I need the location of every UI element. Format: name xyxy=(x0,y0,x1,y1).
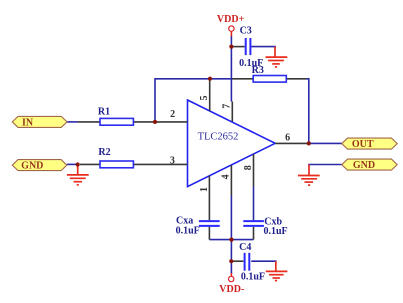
pin 5 lead (top) xyxy=(209,79,211,111)
svg-text:R2: R2 xyxy=(98,147,110,158)
svg-text:GND: GND xyxy=(21,161,43,172)
wire C4 right lead to ground xyxy=(251,261,276,262)
pin 3 lead xyxy=(133,163,187,165)
port OUT xyxy=(342,138,397,149)
svg-text:8: 8 xyxy=(243,165,254,170)
junction node C4/pin4 xyxy=(229,259,233,263)
pin 1 lead (bottom) xyxy=(208,176,210,221)
resistor R2 xyxy=(80,163,100,165)
wire IN port stub xyxy=(67,121,78,123)
junction node pin5/feedback xyxy=(208,77,212,81)
capacitor Cxb xyxy=(253,227,255,240)
svg-text:OUT: OUT xyxy=(352,139,374,150)
wire feedback top: from node at R1 up and across xyxy=(67,36,342,274)
svg-text:3: 3 xyxy=(170,155,175,166)
junction node Cxa/Cxb/pin4 xyxy=(229,238,233,242)
resistor R1 xyxy=(78,121,100,123)
svg-text:2: 2 xyxy=(170,109,175,120)
port GND left xyxy=(12,160,67,171)
ground (left GND) xyxy=(67,165,89,185)
port GND right xyxy=(342,159,397,170)
svg-text:C3: C3 xyxy=(240,25,252,36)
wire pin8 lower to Cxb xyxy=(253,186,255,220)
svg-text:6: 6 xyxy=(285,133,290,144)
junction node GND left xyxy=(76,162,80,166)
svg-text:IN: IN xyxy=(22,117,34,128)
junction node R1/pin2 xyxy=(153,120,157,124)
wire pin6 node to OUT port xyxy=(309,142,342,144)
svg-text:0.1uF: 0.1uF xyxy=(176,226,200,237)
pin 4 lead (bottom) xyxy=(230,165,232,196)
svg-text:5: 5 xyxy=(199,96,210,101)
svg-text:VDD+: VDD+ xyxy=(217,14,245,25)
port IN xyxy=(12,116,67,127)
capacitor C4 xyxy=(232,260,243,262)
wire C3 right lead to ground xyxy=(251,47,275,48)
svg-text:C4: C4 xyxy=(239,242,251,253)
svg-text:TLC2652: TLC2652 xyxy=(198,132,239,143)
svg-text:GND: GND xyxy=(353,160,375,171)
wire GND left port stub xyxy=(67,163,78,165)
svg-text:0.1uF: 0.1uF xyxy=(239,58,263,69)
capacitor C3 xyxy=(234,46,245,48)
svg-text:7: 7 xyxy=(222,104,233,109)
svg-text:0.1uF: 0.1uF xyxy=(241,272,265,283)
pin 2 lead xyxy=(133,121,187,123)
svg-text:0.1uF: 0.1uF xyxy=(264,226,288,237)
wire Cxa-Cxb bottom joining xyxy=(209,239,253,241)
ground (right GND) xyxy=(298,165,320,186)
wire VDD+ stem down to pin7 xyxy=(230,36,232,102)
svg-text:1: 1 xyxy=(199,187,210,192)
wire R3 right to output node xyxy=(306,79,309,144)
pin 7 lead (top) xyxy=(231,102,233,122)
junction node pin6/OUT xyxy=(307,141,311,145)
pin 6 lead xyxy=(275,142,309,144)
capacitor Cxa xyxy=(208,227,210,240)
junction node VDD+/C3 xyxy=(229,45,233,49)
svg-text:R1: R1 xyxy=(98,106,110,117)
ground (C3) xyxy=(266,47,288,67)
svg-text:4: 4 xyxy=(221,174,232,179)
pin 8 lead (bottom) xyxy=(253,154,255,187)
wire pin4 lower through junctions to VDD- xyxy=(230,195,232,274)
ground (C4) xyxy=(266,261,288,280)
wire GND right port to ground xyxy=(309,165,342,167)
svg-text:VDD-: VDD- xyxy=(219,284,244,295)
power VDD- xyxy=(230,273,232,276)
op-amp U TLC2652 triangle xyxy=(188,100,276,187)
resistor R3 xyxy=(232,78,253,80)
